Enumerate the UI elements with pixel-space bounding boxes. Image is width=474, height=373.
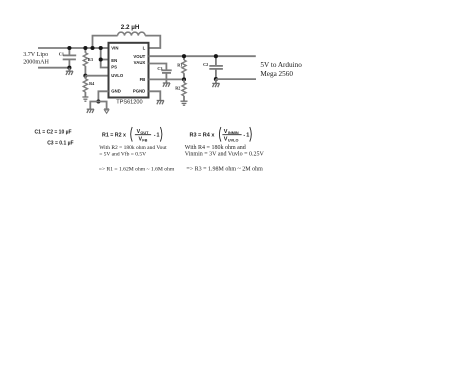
svg-text:VAUX: VAUX (134, 60, 146, 65)
wire battery negative to C1 bottom (38, 67, 69, 69)
wire PGND to ground (149, 91, 161, 100)
svg-text:Mega 2560: Mega 2560 (260, 70, 293, 78)
wire inductor right to L pin (145, 36, 160, 48)
svg-text:C1: C1 (59, 51, 64, 56)
wire return line to Arduino (216, 78, 256, 80)
capacitor C1 (63, 48, 76, 68)
svg-text:UVLO: UVLO (228, 139, 239, 143)
svg-text:C1 = C2 = 10 µF: C1 = C2 = 10 µF (35, 130, 72, 136)
junction C2 bottom (214, 77, 218, 81)
junction C1 bottom (67, 66, 71, 70)
wire VOUT 5V line (149, 55, 256, 57)
junction C2 top (214, 54, 218, 58)
svg-text:L: L (143, 46, 146, 51)
junction R3 top (83, 46, 87, 50)
svg-text:GND: GND (111, 88, 121, 93)
battery label 3.7V Lipo 2000mAH (23, 52, 49, 65)
svg-text:1: 1 (157, 132, 160, 138)
svg-text:R4: R4 (89, 81, 95, 86)
wire ground node right branch (98, 102, 106, 109)
svg-text:3.7V Lipo: 3.7V Lipo (23, 52, 48, 58)
svg-text:VIN: VIN (111, 46, 118, 51)
wire inductor left leg (93, 36, 118, 48)
svg-text:1: 1 (246, 132, 249, 138)
label 5V to Arduino Mega 2560 (260, 61, 302, 78)
ground below C3 (163, 83, 170, 87)
junction EN tie top (99, 46, 103, 50)
resistor R4 (83, 76, 87, 97)
wire GND pin to ground node (98, 91, 108, 101)
svg-text:With R4 = 180k ohm and: With R4 = 180k ohm and (185, 145, 246, 151)
svg-text:5V to Arduino: 5V to Arduino (260, 61, 302, 69)
ground below C2 (212, 79, 219, 87)
junction C1 top (67, 46, 71, 50)
capacitor C2 (209, 56, 223, 79)
IC U1 TPS61200 boost converter (109, 43, 149, 98)
svg-text:2000mAH: 2000mAH (23, 59, 49, 65)
ground below R4 (82, 97, 88, 101)
svg-text:-: - (243, 132, 245, 138)
svg-text:FB: FB (140, 77, 146, 82)
junction R1 top (182, 54, 186, 58)
svg-text:With R2 = 180k ohm and Vout: With R2 = 180k ohm and Vout (99, 145, 167, 151)
ground below C1 (66, 68, 73, 75)
wire VIN rail from battery to VIN pin (38, 47, 109, 49)
junction EN stub (99, 57, 103, 61)
junction FB node (182, 77, 186, 81)
resistor R2 (182, 79, 186, 101)
svg-text:PS: PS (111, 64, 117, 69)
svg-text:TPS61200: TPS61200 (116, 100, 142, 106)
svg-text:R3: R3 (88, 57, 93, 62)
wire FB to divider (149, 78, 185, 80)
ground below R2 (181, 101, 188, 105)
svg-text:R3 = R4 x: R3 = R4 x (190, 132, 216, 138)
formula R3 equation (190, 127, 252, 143)
capacitor C3 (161, 70, 171, 83)
svg-text:C2: C2 (203, 62, 208, 67)
svg-text:=> R1 = 1.62M ohm ~ 1.6M ohm: => R1 = 1.62M ohm ~ 1.6M ohm (99, 166, 175, 172)
note R3 conditions (185, 145, 265, 157)
junction inductor leg on rail (90, 46, 94, 50)
svg-text:FB: FB (142, 139, 147, 143)
ground triangle right of GND (104, 109, 109, 113)
junction ground node (96, 99, 100, 103)
ground below PGND (157, 101, 164, 105)
ground chassis left of GND (87, 109, 94, 113)
svg-text:C3 = 0.1 µF: C3 = 0.1 µF (47, 141, 73, 147)
wire EN PS tie to rail (101, 48, 109, 68)
svg-text:Vinmin = 3V and Vuvlo = 0.25V: Vinmin = 3V and Vuvlo = 0.25V (185, 152, 265, 158)
formula R1 equation (102, 127, 162, 143)
svg-text:R1: R1 (177, 63, 182, 68)
svg-text:= 5V and Vfb = 0.5V: = 5V and Vfb = 0.5V (99, 151, 146, 158)
svg-text:R2: R2 (175, 85, 180, 90)
svg-text:2.2 µH: 2.2 µH (121, 24, 140, 31)
wire ground node left branch (90, 102, 98, 110)
svg-text:UVLO: UVLO (111, 73, 124, 78)
wire UVLO to R3 R4 junction (85, 75, 108, 77)
note R1 conditions (99, 145, 167, 157)
svg-text:=> R3 = 1.98M ohm ~ 2M ohm: => R3 = 1.98M ohm ~ 2M ohm (186, 166, 263, 172)
resistor R3 (83, 48, 87, 76)
svg-text:EN: EN (111, 58, 117, 63)
svg-text:-: - (154, 132, 156, 138)
wire EN stub (101, 59, 109, 61)
svg-text:C3: C3 (157, 66, 162, 71)
svg-text:PGND: PGND (133, 88, 145, 93)
wire VAUX to C3 (149, 64, 167, 71)
svg-text:VOUT: VOUT (133, 54, 145, 59)
inductor L 2.2uH coil (118, 32, 146, 35)
resistor R1 (182, 56, 186, 79)
svg-text:R1 = R2 x: R1 = R2 x (102, 132, 126, 138)
junction R3 R4 UVLO node (83, 74, 87, 78)
